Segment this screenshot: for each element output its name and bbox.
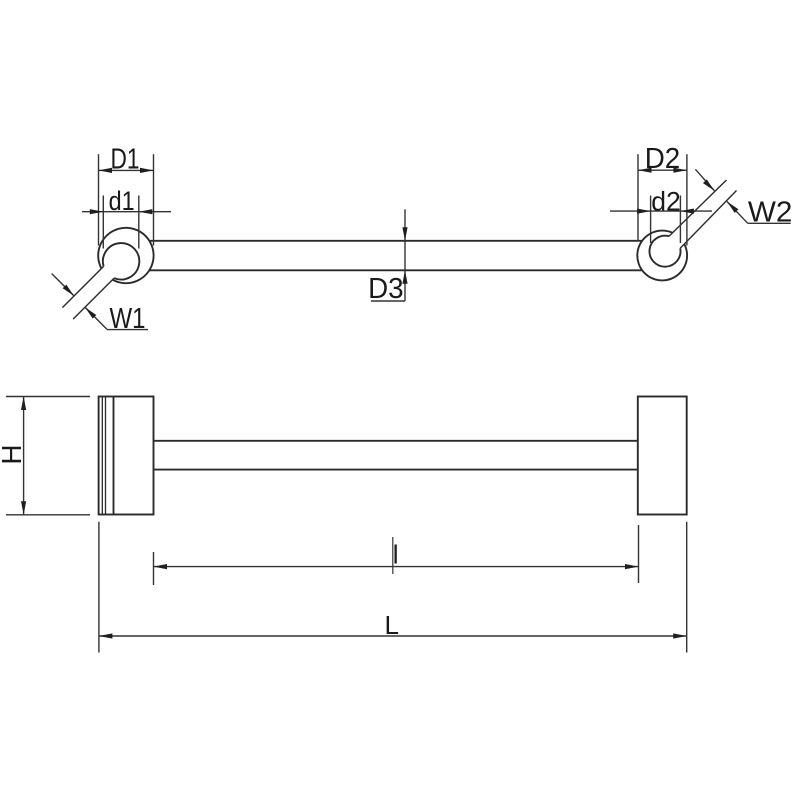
- svg-text:d2: d2: [651, 186, 681, 216]
- svg-text:D3: D3: [368, 273, 404, 305]
- svg-text:l: l: [393, 540, 399, 570]
- svg-text:d1: d1: [109, 186, 135, 216]
- svg-text:H: H: [0, 444, 27, 464]
- svg-text:L: L: [385, 610, 399, 640]
- svg-text:W2: W2: [748, 197, 793, 229]
- svg-text:W1: W1: [110, 303, 146, 335]
- svg-text:D1: D1: [111, 143, 140, 175]
- svg-text:D2: D2: [645, 143, 681, 175]
